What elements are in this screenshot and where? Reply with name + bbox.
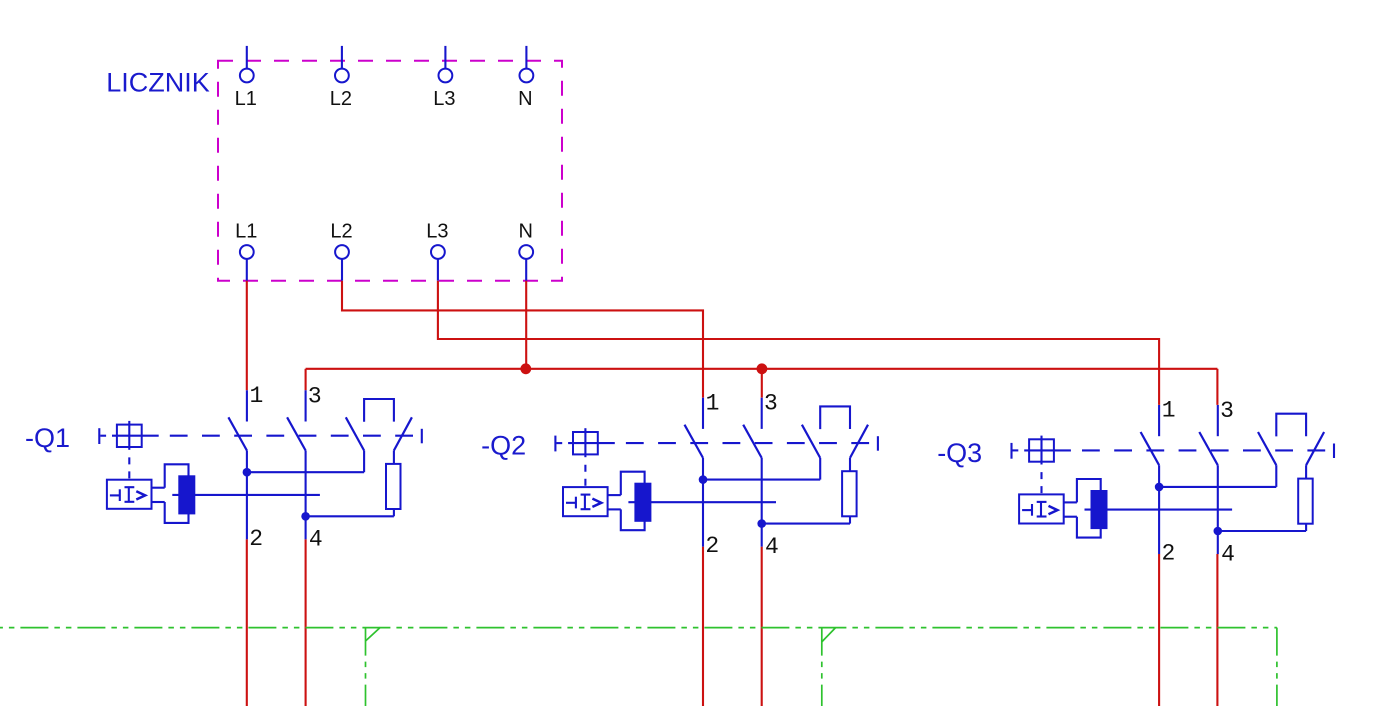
-Q3 pole 3-4 lower conductor (1217, 465, 1219, 554)
junction: N bus to -Q2 pin 3 (757, 363, 768, 374)
meter terminal L2 (bottom) with pin label L2 (330, 221, 352, 281)
-Q2 auxiliary contact lower conductor (819, 458, 821, 480)
-Q1 primary conductor through toroid (172, 494, 320, 496)
svg-text:-Q2: -Q2 (481, 431, 526, 461)
RCD circuit breaker -Q3 (937, 398, 1334, 568)
-Q3 auxiliary contact lower conductor (1275, 465, 1277, 487)
svg-text:2: 2 (1162, 541, 1176, 567)
-Q3 test button to trip relay link (dashed) (1040, 465, 1042, 494)
-Q2 wire pole3 junction to resistor (762, 523, 850, 525)
svg-text:N: N (518, 88, 532, 110)
-Q3 test contact to resistor conductor (1305, 465, 1307, 478)
-Q1 relay to toroid upper link (152, 487, 165, 489)
-Q3 wire pole3 junction to resistor (1218, 530, 1306, 532)
svg-text:3: 3 (308, 383, 322, 409)
-Q3 test button (1024, 436, 1071, 465)
svg-text:L2: L2 (330, 221, 352, 243)
meter terminal L3 (top) with pin label L3 (433, 46, 455, 110)
svg-text:L3: L3 (426, 221, 448, 243)
-Q3 primary conductor through toroid (1085, 509, 1233, 511)
wire N bus to -Q3 pin 3 (1216, 369, 1218, 405)
wire -Q1 pin 4 outgoing (305, 539, 307, 706)
-Q1 test button to trip relay link (dashed) (128, 450, 130, 479)
-Q3 pole 1-2 upper conductor (1158, 405, 1160, 436)
svg-text:4: 4 (765, 534, 779, 560)
-Q2 resistor lower conductor (849, 516, 851, 523)
svg-text:4: 4 (309, 527, 323, 553)
-Q2 mechanical linkage right end tick (877, 436, 879, 451)
-Q1 pole 3-4 lower conductor (305, 451, 307, 540)
-Q1 pole 3-4 upper conductor (305, 390, 307, 421)
wire L1: meter L1 to -Q1 pin 1 (246, 281, 248, 391)
svg-text:L3: L3 (433, 88, 455, 110)
location boundary branch 2 (vertical) (821, 628, 823, 706)
-Q2 pole 1-2 upper conductor (702, 398, 704, 429)
wire -Q2 pin 2 outgoing (702, 547, 704, 706)
N bus wire (horizontal) (306, 368, 1218, 370)
wire -Q3 pin 4 outgoing (1216, 554, 1218, 706)
-Q3 mechanical linkage left end tick (1010, 443, 1012, 459)
-Q1 test resistor (386, 464, 401, 509)
-Q1 junction on pole 3 conductor (301, 512, 310, 521)
meter terminal L1 (top) with pin label L1 (235, 46, 257, 110)
svg-text:2: 2 (705, 533, 719, 559)
svg-text:-Q3: -Q3 (937, 438, 982, 468)
wire N: meter N down to N bus (525, 281, 527, 369)
wire N bus to -Q1 pin 3 (305, 369, 307, 391)
RCD circuit breaker -Q1 (25, 383, 422, 553)
-Q3 test contact blade (right) (1306, 432, 1324, 465)
-Q1 wire pole3 junction to resistor (306, 515, 394, 517)
-Q1 mechanical linkage (dashed) (160, 435, 420, 437)
junction: N drop on N bus (520, 363, 531, 374)
wire L3: meter L3 to -Q3 pin 1 (438, 281, 1159, 405)
-Q3 pole 3-4 contact blade (1199, 432, 1218, 465)
meter terminal L3 (bottom) with pin label L3 (426, 221, 448, 281)
-Q3 test resistor (1298, 479, 1313, 524)
-Q3 junction on pole 3 conductor (1214, 527, 1223, 536)
-Q1 test contact blade (right) (394, 417, 412, 450)
-Q3 mechanical linkage stub at tick (1013, 449, 1019, 451)
-Q1 pole 1-2 lower conductor (246, 451, 248, 540)
-Q1 mechanical linkage right end tick (421, 429, 423, 444)
meter LICZNIK enclosure (dashed outline) (218, 61, 562, 281)
-Q1 junction on pole 1 conductor (243, 468, 252, 477)
-Q3 pole 1-2 lower conductor (1158, 465, 1160, 554)
svg-text:4: 4 (1221, 541, 1235, 567)
-Q2 mechanical linkage left end tick (554, 436, 556, 452)
-Q1 pole 1-2 upper conductor (246, 390, 248, 421)
-Q1 current transformer core (solid) (178, 475, 195, 514)
-Q2 mechanical linkage (dashed) (616, 442, 876, 444)
-Q2 pole 1-2 contact blade (685, 425, 704, 458)
meter terminal L2 (top) with pin label L2 (330, 46, 352, 110)
-Q3 junction on pole 1 conductor (1155, 483, 1164, 492)
-Q1 test circuit bridge (inverted U) (364, 399, 394, 422)
svg-text:L2: L2 (330, 88, 352, 110)
meter terminal L1 (bottom) with pin label L1 (235, 221, 257, 281)
-Q2 test contact to resistor conductor (849, 458, 851, 471)
-Q2 pole 3-4 lower conductor (761, 458, 763, 547)
-Q3 test circuit bridge (inverted U) (1276, 414, 1306, 437)
-Q2 test button to trip relay link (dashed) (584, 458, 586, 487)
svg-text:3: 3 (1220, 398, 1234, 424)
-Q2 auxiliary contact blade (left) (802, 425, 820, 458)
location boundary branch 1 (vertical) (365, 628, 367, 706)
svg-text:2: 2 (249, 526, 263, 552)
-Q1 pole 1-2 contact blade (228, 417, 247, 450)
-Q2 test button (568, 428, 615, 457)
meter terminal N (top) with pin label N (518, 46, 533, 110)
-Q2 junction on pole 1 conductor (699, 475, 708, 484)
-Q3 current transformer core (solid) (1091, 490, 1108, 529)
-Q2 relay to toroid lower link (608, 508, 621, 510)
svg-text:3: 3 (764, 391, 778, 417)
-Q3 pole 1-2 contact blade (1141, 432, 1160, 465)
-Q2 pole 3-4 upper conductor (761, 398, 763, 429)
-Q2 differential trip relay I> (563, 487, 608, 516)
-Q1 relay to toroid lower link (152, 501, 165, 503)
svg-text:LICZNIK: LICZNIK (106, 68, 210, 98)
-Q1 mechanical linkage left end tick (98, 428, 100, 444)
location boundary right corner drop (1276, 628, 1278, 706)
-Q2 pole 1-2 lower conductor (702, 458, 704, 547)
RCD circuit breaker -Q2 (481, 390, 878, 560)
-Q2 current transformer toroid outline (621, 472, 645, 531)
-Q1 wire pole1 junction to aux contact (247, 471, 364, 473)
-Q1 pole 3-4 contact blade (287, 417, 306, 450)
meter terminal N (bottom) with pin label N (518, 221, 533, 281)
svg-text:-Q1: -Q1 (25, 423, 70, 453)
-Q1 test contact to resistor conductor (393, 451, 395, 464)
svg-text:L1: L1 (235, 88, 257, 110)
location boundary branch 1 tap diagonal (366, 627, 381, 641)
-Q3 mechanical linkage (dashed) (1072, 449, 1332, 451)
-Q2 test resistor (842, 471, 857, 516)
svg-text:N: N (518, 221, 532, 243)
location boundary line (horizontal, dash-dot-dot) (0, 627, 1277, 629)
svg-text:1: 1 (1162, 398, 1176, 424)
-Q2 mechanical linkage stub at tick (556, 442, 562, 444)
-Q3 differential trip relay I> (1019, 494, 1064, 523)
wire -Q3 pin 2 outgoing (1158, 554, 1160, 706)
svg-text:1: 1 (250, 383, 264, 409)
-Q3 auxiliary contact blade (left) (1258, 432, 1276, 465)
-Q3 current transformer toroid outline (1077, 479, 1101, 538)
-Q1 auxiliary contact blade (left) (346, 417, 364, 450)
location boundary branch 2 tap diagonal (822, 628, 836, 642)
-Q1 auxiliary contact lower conductor (363, 451, 365, 473)
wire L2: meter L2 to -Q2 pin 1 (342, 281, 703, 398)
-Q3 wire pole1 junction to aux contact (1159, 486, 1276, 488)
-Q3 relay to toroid upper link (1064, 501, 1077, 503)
-Q3 pole 3-4 upper conductor (1217, 405, 1219, 436)
-Q1 test button (112, 421, 159, 450)
-Q1 current transformer toroid outline (165, 464, 189, 523)
wire N bus to -Q2 pin 3 (761, 369, 763, 398)
-Q2 wire pole1 junction to aux contact (703, 479, 820, 481)
-Q3 mechanical linkage right end tick (1333, 444, 1335, 459)
-Q1 resistor lower conductor (393, 509, 395, 516)
svg-text:L1: L1 (235, 221, 257, 243)
svg-text:1: 1 (706, 390, 720, 416)
wire -Q1 pin 2 outgoing (246, 539, 248, 706)
-Q2 pole 3-4 contact blade (743, 425, 762, 458)
-Q2 primary conductor through toroid (628, 501, 776, 503)
-Q1 mechanical linkage stub at tick (100, 435, 106, 437)
wire -Q2 pin 4 outgoing (761, 547, 763, 706)
-Q3 resistor lower conductor (1305, 524, 1307, 531)
-Q2 test circuit bridge (inverted U) (820, 406, 850, 429)
-Q2 test contact blade (right) (850, 425, 868, 458)
-Q1 differential trip relay I> (107, 480, 152, 509)
-Q3 relay to toroid lower link (1064, 516, 1077, 518)
-Q2 relay to toroid upper link (608, 494, 621, 496)
-Q2 junction on pole 3 conductor (757, 519, 766, 528)
-Q2 current transformer core (solid) (634, 483, 651, 522)
